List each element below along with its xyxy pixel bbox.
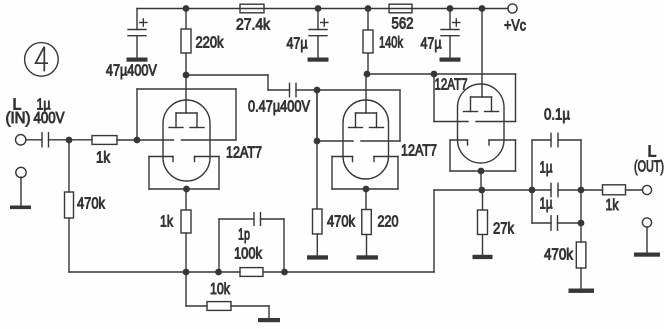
svg-text:470k: 470k xyxy=(544,247,574,264)
svg-text:562: 562 xyxy=(392,16,414,33)
svg-text:1p: 1p xyxy=(238,227,250,244)
svg-text:+Vc: +Vc xyxy=(504,18,526,35)
svg-text:10k: 10k xyxy=(210,281,231,298)
svg-text:1µ: 1µ xyxy=(540,196,553,213)
svg-text:(IN): (IN) xyxy=(6,110,31,127)
svg-text:27.4k: 27.4k xyxy=(236,17,271,34)
svg-text:0.47µ400V: 0.47µ400V xyxy=(248,99,311,116)
svg-text:220: 220 xyxy=(378,214,399,231)
svg-text:140k: 140k xyxy=(379,35,404,52)
svg-text:12AT7: 12AT7 xyxy=(226,145,262,162)
svg-text:470k: 470k xyxy=(77,196,106,213)
svg-text:(OUT): (OUT) xyxy=(634,159,664,176)
svg-text:12AT7: 12AT7 xyxy=(401,143,437,160)
svg-text:100k: 100k xyxy=(234,246,263,263)
svg-text:1k: 1k xyxy=(606,197,620,214)
svg-text:47µ400V: 47µ400V xyxy=(106,63,157,80)
svg-text:27k: 27k xyxy=(493,220,515,237)
svg-text:47µ: 47µ xyxy=(287,36,308,53)
svg-text:220k: 220k xyxy=(196,35,225,52)
svg-text:47µ: 47µ xyxy=(421,36,442,53)
svg-text:1k: 1k xyxy=(96,150,111,167)
svg-text:470k: 470k xyxy=(327,214,356,231)
svg-text:1µ: 1µ xyxy=(540,160,553,177)
svg-text:12AT7: 12AT7 xyxy=(435,77,468,94)
svg-text:0.1µ: 0.1µ xyxy=(544,107,570,124)
svg-text:400V: 400V xyxy=(34,110,65,127)
svg-text:1k: 1k xyxy=(160,214,174,231)
